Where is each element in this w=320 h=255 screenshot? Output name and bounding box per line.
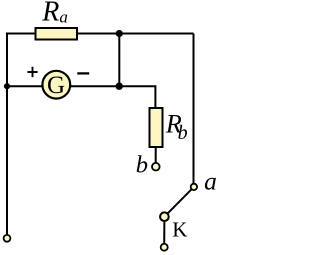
svg-text:a: a (204, 167, 217, 196)
svg-text:G: G (47, 72, 65, 99)
wire: left vertical from top-left corner down to battery terminal (6, 34, 8, 239)
wire: top horizontal from left corner to right corner (6, 33, 194, 35)
resistor Rb (150, 108, 163, 147)
wire: lead from Rb bottom to node b (155, 147, 157, 166)
junction dot on top wire (116, 30, 123, 37)
svg-text:K: K (172, 218, 187, 242)
wire: galvanometer row horizontal then down to Rb (7, 86, 155, 108)
switch K label (172, 218, 187, 242)
resistor Ra (36, 28, 78, 40)
lower switch terminal (161, 244, 168, 251)
wire: switch blade from node a to switch pivot (164, 187, 194, 217)
svg-text:a: a (59, 8, 68, 27)
svg-text:R: R (41, 0, 59, 28)
label b (136, 151, 148, 178)
svg-text:b: b (178, 122, 188, 144)
galvanometer G (42, 71, 70, 99)
left battery terminal (4, 235, 11, 242)
svg-text:b: b (136, 151, 148, 178)
junction dot on left wire (4, 83, 10, 89)
polarity plus (27, 67, 37, 77)
switch pivot terminal (160, 212, 169, 221)
node a terminal (191, 184, 197, 190)
wire: right vertical from top-right corner down to node a (193, 34, 195, 187)
node b terminal (152, 163, 160, 171)
wire: lead from switch pivot down to lower switch terminal (163, 217, 165, 248)
wire: branch from top junction down to galvanometer row (118, 34, 120, 87)
label a (204, 167, 217, 196)
label Ra (41, 0, 68, 28)
label Rb (165, 110, 188, 145)
junction dot on galvanometer row (116, 83, 123, 90)
polarity minus (77, 72, 89, 74)
